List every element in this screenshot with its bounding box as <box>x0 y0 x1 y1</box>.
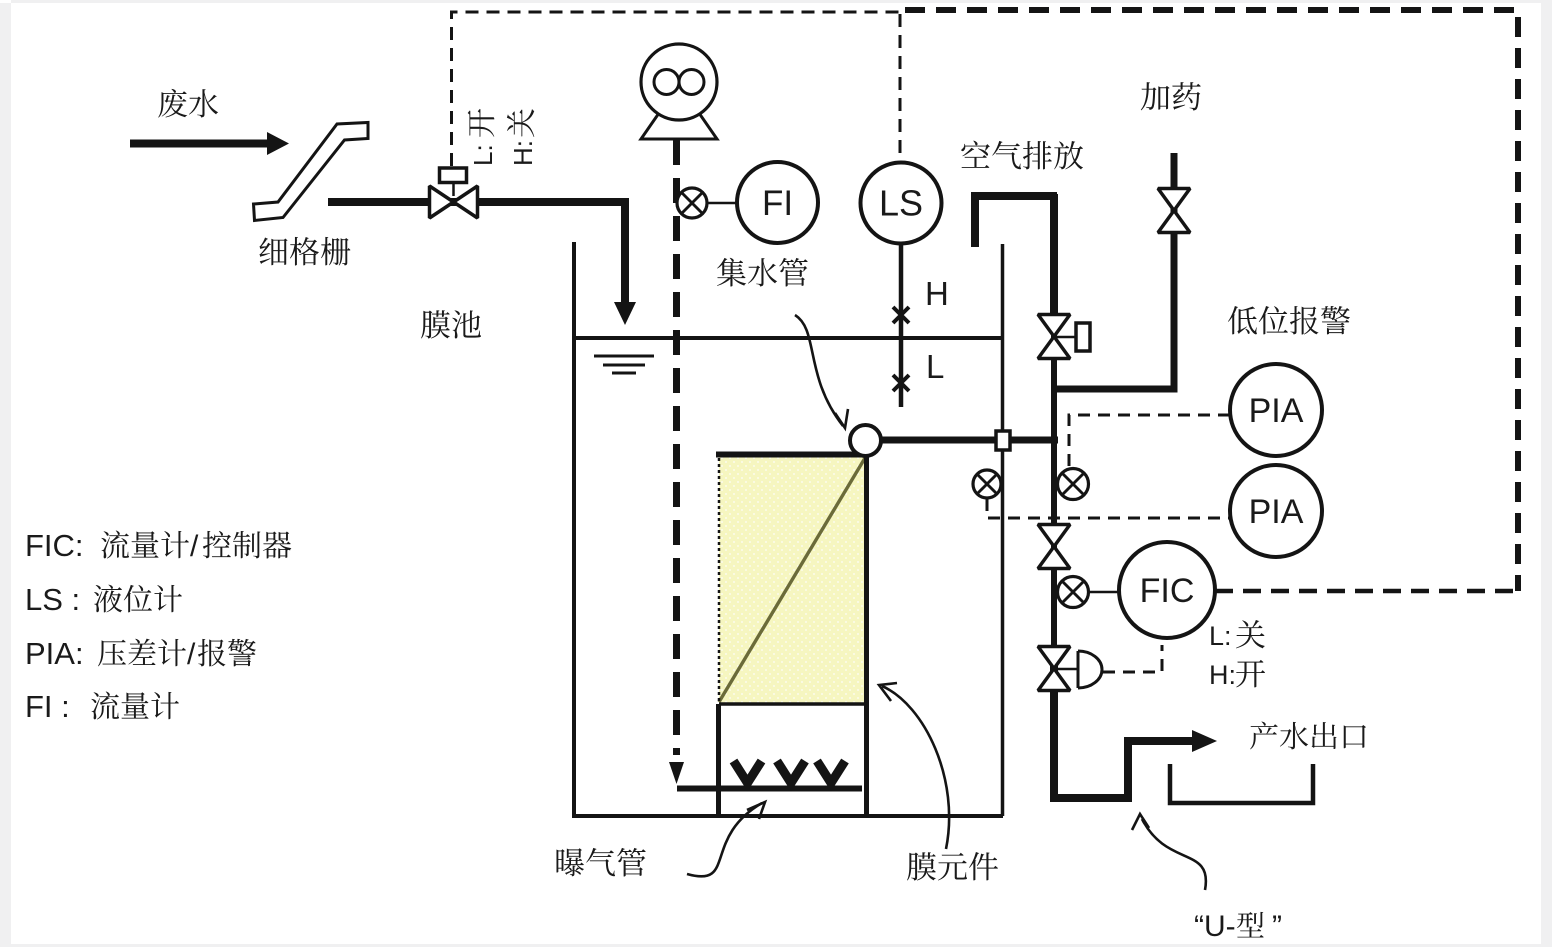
svg-text:L:: L: <box>468 144 498 166</box>
svg-text:PIA:: PIA: <box>25 636 84 671</box>
svg-text:/: / <box>187 638 196 671</box>
svg-text:FI: FI <box>762 184 793 223</box>
svg-text:”: ” <box>1272 910 1282 943</box>
svg-text:FIC:: FIC: <box>25 528 84 563</box>
svg-text:H:: H: <box>1209 660 1236 690</box>
svg-text:FI :: FI : <box>25 689 70 724</box>
svg-text:H: H <box>925 275 949 312</box>
svg-text:“U-: “U- <box>1194 910 1236 943</box>
svg-text:FIC: FIC <box>1140 572 1195 610</box>
svg-text:LS :: LS : <box>25 582 80 617</box>
svg-text:LS: LS <box>879 183 923 224</box>
svg-text:PIA: PIA <box>1249 493 1304 531</box>
svg-text:/: / <box>190 530 199 563</box>
svg-text:PIA: PIA <box>1249 392 1304 430</box>
svg-text:H:: H: <box>508 140 538 166</box>
svg-text:L: L <box>926 348 944 385</box>
svg-text:L:: L: <box>1209 621 1232 651</box>
